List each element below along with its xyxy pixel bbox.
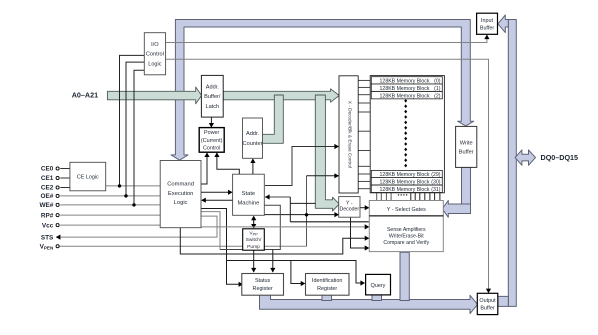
svg-text:Register: Register [253,286,273,292]
wire: SM right elbow down to Status Register [220,205,280,249]
svg-text:Execution: Execution [168,191,193,197]
bus: Output Buffer to right bus connector [498,296,509,306]
wire: VPP pump down to Status Register [253,250,255,272]
wire: I/O Control to Output Buffer enable [166,59,489,292]
wire: vertical to status top arrow2 [272,250,274,272]
wire: State Machine to Y-Decoder select line [264,214,338,216]
wire: SM - VPP switch double arrow [253,220,255,225]
block: Write Buffer [456,126,477,167]
block: 128KB Memory Block (1) [371,84,442,91]
block: Command Execution Logic [160,161,201,228]
svg-text:Write: Write [460,140,473,146]
wire: vertical x290 with two right branches [289,197,291,222]
arrowhead into X-Decoder y146 [334,144,339,149]
wire: X-Decoder to array word line ticks [358,79,370,81]
wire: VPEN line from pin [59,245,306,247]
junction dot OE line [124,194,127,197]
block: Status Register [242,274,284,296]
arrowhead down into Output Buffer top [486,289,491,294]
svg-text:State: State [242,191,256,197]
arrowhead up into Input Buffer bottom [484,35,489,40]
svg-text:Y -: Y - [346,200,353,206]
svg-text:Addr.: Addr. [246,131,260,137]
svg-text:Control: Control [146,52,164,58]
pin CE2 [56,186,59,189]
wire: CEL to Power Control arrow1 [201,153,207,184]
bus: address band from Addr Buffer to X-Decoder with arrow [223,89,339,102]
wire: OE tap up to I/O Control Logic [120,55,145,186]
svg-text:Write/Erase-Bit: Write/Erase-Bit [389,233,424,239]
junction dot WE line [132,203,135,206]
svg-text:Buffer: Buffer [480,25,494,31]
wire: CEL right to Sense Amp arrow1 [201,226,369,228]
svg-text:Counter: Counter [243,141,263,147]
svg-text:CE Logic: CE Logic [77,175,99,181]
bus: Sense Amplifier output leg down to output band [400,252,409,300]
svg-text:Compare and Verify: Compare and Verify [383,240,429,246]
wire: SM to X-Decoder net [265,147,338,186]
svg-text:128KB Memory Block: 128KB Memory Block [380,79,430,85]
svg-text:Y - Select Gates: Y - Select Gates [387,207,426,213]
svg-text:I/O: I/O [151,42,159,48]
junction dot Y-decoder feed / VPEN [305,213,308,216]
svg-text:CE0: CE0 [41,166,54,173]
svg-text:128KB Memory Block: 128KB Memory Block [380,86,430,92]
arrowhead STS [56,235,61,240]
wire: CEL exit to x220 vertical [201,212,220,250]
block: 128KB Memory Block (31) [371,185,442,192]
wire: Y-Decoder bottom to Sense Amp arrow3 [351,217,369,248]
wire: Vcc line to CEL [60,224,160,226]
dotted column inside memory array [404,99,407,103]
svg-text:128KB Memory Block: 128KB Memory Block [380,93,430,99]
svg-text:(0): (0) [434,79,441,85]
svg-text:Latch: Latch [205,104,219,110]
wire: CE2 pin to CE Logic [60,187,70,189]
bus: arm + arrow into Input Buffer right edge [498,15,508,33]
bus: Write Buffer output band down and left into Y-Select Gates [462,167,471,213]
block: VPP Switch/Pump [243,229,265,250]
wire: CE1 pin to CE Logic [60,177,70,179]
svg-text:CE2: CE2 [41,185,54,192]
svg-text:Buffer: Buffer [459,149,474,155]
block: State Machine [233,174,265,215]
svg-text:RP#: RP# [41,212,54,219]
block: Sense Amplifiers / Write-Erase Bit Compare and Verify [369,216,443,252]
svg-text:(30): (30) [431,179,440,185]
wire: tap2 up to I/O Control Logic [126,62,144,196]
svg-text:Switch/: Switch/ [246,237,262,243]
block: memory array [370,76,444,193]
pin RP# [56,214,59,217]
block: Identification Register [306,274,350,296]
bus: address leg down into Addr Counter [262,95,283,143]
block: Power (Current) Control [199,128,224,153]
arrowhead into Power Control bottom 1 [204,152,209,157]
pin CE0 [56,167,59,170]
svg-text:(1): (1) [434,86,441,92]
svg-text:(31): (31) [431,187,440,193]
block: Input Buffer [477,13,498,34]
block: I/O Control Logic [144,33,165,75]
wire: array to Y-Select bit line stubs [376,193,378,201]
svg-text:VPEN: VPEN [40,243,54,250]
svg-text:X - Decoder/Blk & Erase Contro: X - Decoder/Blk & Erase Control [348,101,353,168]
svg-text:(Current): (Current) [201,138,223,144]
svg-text:Buffer/: Buffer/ [204,94,221,100]
wire: STS output from CEL [56,216,217,237]
wire: CEL bottom net to Sense Amp arrow2 [180,228,368,254]
arrowhead into Sense Amp 2 [365,236,370,241]
svg-text:Addr.: Addr. [206,84,220,90]
svg-text:Buffer: Buffer [480,306,494,312]
svg-text:Decoder: Decoder [339,207,359,213]
pin OE# [56,194,59,197]
arrowhead into Query left [360,280,365,285]
svg-text:Input: Input [481,18,493,24]
svg-text:DQ0–DQ15: DQ0–DQ15 [541,153,579,162]
wire: State Machine to CEL [202,199,233,201]
wire: WE# line to CEL [60,204,160,206]
svg-text:WE#: WE# [39,202,53,209]
bus: output data band along bottom into Output Buffer [260,295,478,314]
block: 128KB Memory Block (2) [371,92,442,99]
svg-text:Logic: Logic [148,61,162,67]
svg-text:OE#: OE# [41,193,54,200]
svg-text:Logic: Logic [174,200,188,206]
block: Output Buffer [477,293,498,314]
arrowhead into State Machine right [265,194,270,199]
wire: feed into X-Decoder lower arrow [307,175,339,177]
pin VPEN [56,245,59,248]
wire: I/O Control to Input Buffer enable [166,35,487,43]
block: Addr Counter [243,118,263,158]
wire: OE# line to CEL [60,195,160,197]
bus: data bus top band with leg down to Command Execution Logic and leg down to Write Buffer [171,20,474,161]
arrowhead into Power Control bottom 2 [214,152,219,157]
arrowhead into Addr Counter bottom [250,158,255,163]
svg-text:128KB Memory Block: 128KB Memory Block [380,179,430,185]
wire: CEL to State Machine [201,191,232,193]
wire: query net from CEL [201,209,243,285]
svg-text:(2): (2) [434,93,441,99]
wire: CE0 pin to CE Logic [60,168,70,170]
block: 128KB Memory Block (29) [371,170,442,177]
bus: DQ0-DQ15 double arrow [515,150,535,165]
svg-text:Output: Output [479,298,496,304]
svg-text:Register: Register [317,286,337,292]
svg-text:STS: STS [41,234,54,241]
svg-text:Sense Amplifiers: Sense Amplifiers [387,227,426,233]
bus: address leg down to Y-Decoder with arrow [315,95,339,211]
pin Vcc [56,224,59,227]
wire: SM top to Power Control arrow2 [217,153,239,174]
svg-text:A0–A21: A0–A21 [72,91,98,100]
svg-text:Pump: Pump [247,244,260,250]
svg-text:Vcc: Vcc [42,222,54,229]
svg-text:Power: Power [204,130,219,136]
arrowhead into Status Register left [239,282,244,287]
svg-text:Control: Control [203,145,220,151]
arrowhead into Sense Amp 3 [365,245,370,250]
wire: query branch [227,261,365,284]
block: Y-Decoder [339,197,360,218]
wire: Addr Buffer down to Power Control [210,117,212,127]
arrowhead into Y-Decoder y215 [334,212,339,217]
wire: net into SM right edge, branches right [265,196,290,198]
arrowhead into Status Register top left [251,268,256,273]
wire: Identification Register feed from query line [291,261,305,284]
bus: A0-A21 address band with arrow into Addr Buffer/Latch [107,87,201,104]
svg-text:Machine: Machine [237,200,259,206]
block: X-Decoder/Blk & Erase Control [339,76,358,193]
arrowhead into Sense Amp 1 [365,224,370,229]
bus: DQ right-side vertical bus [508,20,516,307]
bus: Query stub into output band [372,295,382,301]
svg-text:128KB Memory Block: 128KB Memory Block [380,187,430,193]
arrowhead into CEL [201,198,206,203]
block: Y-Select Gates [369,201,443,216]
svg-text:Identification: Identification [312,278,342,284]
arrowhead into X-Decoder y176 [334,173,339,178]
arrowhead into Power Control top [209,123,214,128]
wire: CE Logic output to CEL [106,185,161,187]
arrowhead into Identification Register left [301,281,306,286]
wire: RP# line to CEL [60,214,160,216]
dots between bit line stubs [398,194,400,196]
block: Addr Buffer/Latch [201,75,223,117]
arrowhead down into VPP Switch top [251,224,256,229]
block: 128KB Memory Block (30) [371,178,442,185]
arrowhead into State Machine [228,190,233,195]
junction dot CE line [118,184,121,187]
wire: tap3 up to I/O Control Logic [134,70,144,205]
block: Query [366,274,391,295]
bus: Identification Register stub into output band [322,295,332,301]
svg-text:Status: Status [255,278,271,284]
pin WE# [56,203,59,206]
wire: SM top up to Addr Counter [252,159,254,174]
block: CE Logic [70,162,106,191]
wire: Y-Decoder to Y-Select Gates [360,207,369,209]
svg-text:Command: Command [167,181,194,187]
svg-text:Query: Query [371,283,386,289]
svg-text:CE1: CE1 [41,175,54,182]
arrowhead up into State Machine bottom [251,216,256,221]
block: 128KB Memory Block (0) [371,77,442,84]
arrowhead into Y-Select Gates [365,205,370,210]
pin CE1 [56,176,59,179]
arrowhead into Status Register top right [270,268,275,273]
wire: VPEN vertical up to X-Decoder feed [306,176,308,246]
